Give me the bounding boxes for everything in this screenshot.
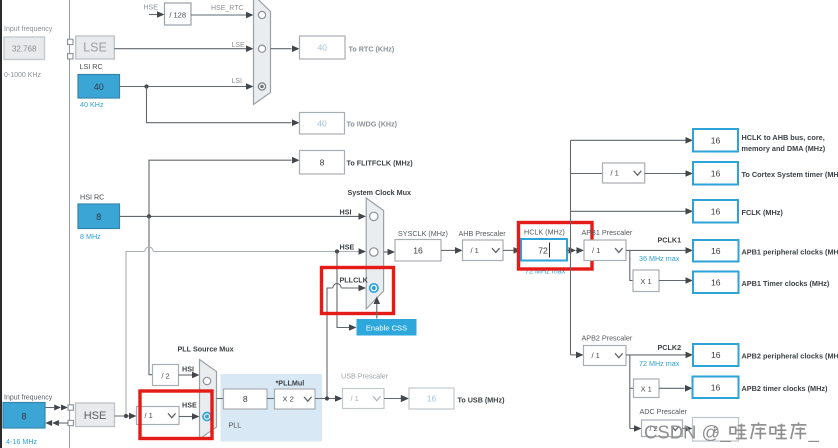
- value box SYSCLK 16: [395, 240, 441, 262]
- label APB2 timer clocks: [742, 384, 829, 393]
- svg-text:PCLK1: PCLK1: [658, 236, 682, 245]
- oscillator HSI RC 8: [78, 204, 120, 229]
- wire HSE horizontal to system mux: [153, 248, 366, 255]
- label 72 MHz max (HCLK): [525, 267, 566, 276]
- radio LSI selected: [258, 83, 265, 90]
- svg-text:0-1000 KHz: 0-1000 KHz: [4, 72, 41, 79]
- svg-text:APB2 timer clocks (MHz): APB2 timer clocks (MHz): [742, 384, 829, 393]
- svg-text:16: 16: [711, 206, 721, 216]
- svg-text:To RTC (KHz): To RTC (KHz): [349, 45, 395, 54]
- wire HSE to /128: [149, 11, 165, 18]
- port squares LSE: [68, 39, 73, 59]
- svg-text:40 KHz: 40 KHz: [80, 100, 104, 109]
- svg-text:16: 16: [711, 168, 721, 178]
- label APB2 Prescaler: [582, 334, 633, 343]
- wire PLL output: [315, 395, 343, 402]
- svg-text:/ 1: / 1: [611, 169, 619, 178]
- svg-text:X 2: X 2: [283, 395, 294, 404]
- mux RTC source: [254, 0, 271, 105]
- wire bus to FCLK box: [571, 208, 694, 215]
- label HCLK to AHB bus: [742, 133, 826, 153]
- svg-text:*PLLMul: *PLLMul: [276, 379, 305, 388]
- value box To FLITFCLK 8: [300, 151, 345, 175]
- wire LSI branch to IWDG: [147, 87, 300, 126]
- svg-text:To FLITFCLK (MHz): To FLITFCLK (MHz): [347, 159, 414, 168]
- input box 32.768: [4, 37, 45, 60]
- svg-text:16: 16: [711, 350, 721, 360]
- wire HSI to system mux: [120, 213, 367, 220]
- wire double arrows in: [45, 420, 68, 426]
- svg-text:Input frequency: Input frequency: [4, 395, 53, 402]
- svg-text:32.768: 32.768: [12, 45, 37, 54]
- label Input frequency (LSE): [4, 26, 53, 33]
- svg-text:40: 40: [317, 118, 327, 128]
- svg-text:APB1 peripheral clocks (MHz): APB1 peripheral clocks (MHz): [742, 248, 838, 257]
- label PCLK1: [658, 236, 682, 245]
- input box HSE frequency 8: [3, 403, 45, 429]
- label 8 MHz: [80, 232, 101, 241]
- port squares HSE: [68, 405, 73, 426]
- wire bus to AHB box: [571, 137, 694, 144]
- wire sysmux to SYSCLK: [384, 249, 395, 256]
- wire AHB to HCLK: [503, 247, 521, 254]
- label APB1 peripheral clocks: [742, 248, 838, 257]
- wire bus to APB2 prescaler: [571, 352, 584, 359]
- svg-text:APB2 peripheral clocks (MHz): APB2 peripheral clocks (MHz): [742, 352, 838, 361]
- wire pllmux to PLL input: [217, 398, 224, 400]
- svg-text:To IWDG (KHz): To IWDG (KHz): [347, 120, 398, 129]
- label HCLK (MHz): [524, 228, 565, 237]
- svg-text:LSI: LSI: [232, 78, 243, 85]
- button Enable CSS: [357, 319, 417, 336]
- label 0-1000 KHz: [4, 72, 41, 79]
- svg-text:Enable CSS: Enable CSS: [366, 323, 407, 332]
- label LSI (mux input): [232, 78, 243, 85]
- dropdown PLLMul X2: [275, 389, 316, 409]
- label HSE (top): [144, 5, 159, 12]
- svg-text:PCLK2: PCLK2: [658, 343, 682, 352]
- svg-text:System Clock Mux: System Clock Mux: [348, 188, 412, 197]
- prescaler /128: [165, 3, 192, 25]
- svg-text:PLL: PLL: [229, 421, 242, 430]
- wire branch to X1 APB2: [630, 387, 634, 389]
- label 4-16 MHz: [6, 437, 38, 446]
- highlight red box HCLK: [519, 223, 593, 270]
- oscillator HSE: [76, 403, 115, 427]
- svg-text:/ 1: / 1: [351, 394, 359, 403]
- value box To USB 16: [409, 388, 454, 409]
- svg-text:16: 16: [711, 382, 721, 392]
- label LSE (mux input): [232, 42, 246, 49]
- label To FLITFCLK (MHz): [347, 159, 414, 168]
- dropdown APB2 /1: [584, 346, 627, 366]
- svg-text:To USB (MHz): To USB (MHz): [458, 396, 506, 405]
- label PLLCLK: [340, 276, 369, 285]
- svg-text:/ 128: / 128: [169, 10, 186, 19]
- multiplier X1 APB2: [634, 379, 660, 398]
- radio HSE sysmux: [370, 248, 378, 256]
- svg-text:AHB Prescaler: AHB Prescaler: [459, 229, 507, 238]
- label LSI RC: [80, 62, 103, 71]
- wire /2 to pll mux: [179, 372, 200, 379]
- svg-text:8: 8: [243, 394, 248, 404]
- wire /1 to pll mux: [179, 413, 200, 420]
- radio HSI sysmux: [370, 212, 378, 220]
- wire PLLCLK to sysmux: [327, 283, 366, 398]
- svg-text:HCLK (MHz): HCLK (MHz): [524, 228, 565, 237]
- value box APB1 timer 16: [693, 272, 739, 294]
- multiplier X1 APB1: [633, 270, 659, 292]
- svg-text:PLLCLK: PLLCLK: [340, 276, 369, 285]
- label HSI RC: [80, 193, 104, 202]
- mux System Clock: [366, 198, 383, 309]
- label To USB (MHz): [458, 396, 506, 405]
- svg-text:X 1: X 1: [641, 384, 652, 393]
- svg-text:40: 40: [94, 82, 104, 92]
- wire SYSCLK to AHB prescaler: [441, 247, 463, 254]
- dropdown USB /1 disabled: [343, 389, 385, 409]
- watermark glyph ku2: [791, 422, 807, 439]
- label AHB Prescaler: [459, 229, 507, 238]
- svg-text:PLL Source Mux: PLL Source Mux: [178, 345, 234, 354]
- label APB2 peripheral clocks: [742, 352, 838, 361]
- svg-text:HSE: HSE: [340, 243, 355, 252]
- wire APB1 branch to X1: [630, 250, 633, 280]
- highlight red box PLLCLK: [322, 268, 394, 314]
- wire APB2 to peripheral box: [626, 352, 693, 359]
- value box APB2 peripheral 16: [693, 344, 739, 366]
- svg-text:ADC Prescaler: ADC Prescaler: [640, 407, 688, 416]
- value box To RTC 40: [300, 36, 346, 59]
- radio HSE_RTC: [258, 11, 265, 18]
- value box APB2 timer 16: [693, 377, 739, 399]
- radio LSE: [258, 45, 265, 52]
- wire HSE hop over HSI: [145, 247, 154, 252]
- svg-text:SYSCLK (MHz): SYSCLK (MHz): [398, 229, 448, 238]
- svg-text:16: 16: [711, 135, 721, 145]
- label PCLK2: [658, 343, 682, 352]
- wire LSE to mux: [114, 45, 253, 52]
- label ADC Prescaler: [640, 407, 688, 416]
- svg-text:APB1 Timer clocks (MHz): APB1 Timer clocks (MHz): [742, 279, 830, 288]
- watermark glyph wa2: [770, 424, 787, 439]
- label PLL: [229, 421, 242, 430]
- svg-text:/ 1: / 1: [592, 351, 600, 360]
- svg-text:FCLK (MHz): FCLK (MHz): [742, 208, 784, 217]
- value box Cortex timer 16: [693, 162, 738, 185]
- label 36 MHz max: [639, 254, 680, 263]
- radio HSE pllmux selected: [203, 413, 211, 421]
- wire HCLK to bus double arrow: [567, 247, 584, 254]
- svg-text:/ 1: / 1: [592, 246, 600, 255]
- label System Clock Mux: [348, 188, 412, 197]
- label To Cortex System timer: [742, 170, 838, 179]
- svg-text:HSE: HSE: [182, 401, 197, 410]
- label HSI (pll mux): [182, 364, 194, 373]
- svg-text:X 1: X 1: [640, 277, 651, 286]
- label USB Prescaler: [341, 372, 389, 381]
- mux PLL Source: [200, 360, 217, 440]
- label To RTC (KHz): [349, 45, 395, 54]
- panel divider line: [69, 0, 71, 448]
- wire RTC mux output: [271, 45, 300, 52]
- svg-text:memory and DMA (MHz): memory and DMA (MHz): [742, 144, 826, 153]
- dropdown AHB /1: [463, 240, 504, 261]
- svg-text:16: 16: [413, 245, 423, 255]
- svg-text:/ 1: / 1: [471, 246, 479, 255]
- svg-text:4-16 MHz: 4-16 MHz: [6, 437, 38, 446]
- dropdown ADC /2: [642, 420, 683, 437]
- watermark glyph ku1: [751, 422, 767, 439]
- svg-text:HSI: HSI: [340, 208, 352, 217]
- label PLL Source Mux: [178, 345, 234, 354]
- value box HCLK-AHB 16: [693, 129, 738, 152]
- prescaler /2 HSI: [153, 365, 179, 386]
- value box PLL input 8: [224, 389, 268, 409]
- svg-text:LSI RC: LSI RC: [80, 62, 103, 71]
- PLL shaded region: [221, 374, 323, 442]
- radio PLLCLK selected: [370, 284, 378, 292]
- svg-text:HSE: HSE: [144, 5, 159, 12]
- label APB1 Timer clocks: [742, 279, 830, 288]
- dropdown APB1 /1: [584, 240, 626, 261]
- svg-text:36 MHz max: 36 MHz max: [639, 254, 680, 263]
- wire HSE vertical: [126, 252, 145, 417]
- wire PLL input to PLLMul: [267, 398, 275, 400]
- oscillator LSE: [76, 36, 115, 59]
- svg-text:8: 8: [96, 212, 101, 222]
- oscillator LSI RC 40: [78, 75, 120, 99]
- wire APB2 branch vertical: [629, 355, 631, 429]
- watermark glyph wa1: [730, 424, 747, 439]
- label Input frequency (HSE): [4, 395, 53, 402]
- value box APB1 peripheral 16: [693, 240, 739, 262]
- value box To ADC: [693, 418, 739, 442]
- svg-text:8 MHz: 8 MHz: [80, 232, 101, 241]
- wire HSI branch to FLITFCLK: [149, 157, 300, 217]
- wire HSI vertical to PLL /2: [149, 216, 153, 374]
- svg-text:16: 16: [427, 394, 437, 404]
- svg-text:To Cortex System timer (MHz): To Cortex System timer (MHz): [742, 170, 838, 179]
- wire bus to cortex prescaler: [571, 173, 603, 175]
- left panel dark border: [0, 0, 2, 448]
- svg-text:72: 72: [538, 246, 548, 256]
- value box To IWDG 40: [300, 113, 345, 135]
- wire HCLK bus vertical: [570, 140, 572, 355]
- label HSE_RTC: [211, 5, 244, 12]
- svg-text:16: 16: [711, 246, 721, 256]
- svg-text:HCLK to AHB bus, core,: HCLK to AHB bus, core,: [742, 133, 825, 142]
- watermark CSDN: [644, 422, 731, 444]
- radio HSI pllmux: [203, 377, 210, 384]
- label *PLLMul: [276, 379, 305, 388]
- input box HCLK 72: [521, 239, 567, 261]
- label HSE (pll mux): [182, 401, 197, 410]
- dropdown Cortex /1: [603, 163, 645, 183]
- label HSI (sysmux): [340, 208, 352, 217]
- svg-text:8: 8: [21, 411, 26, 421]
- svg-text:CSDN @_: CSDN @_: [644, 422, 731, 444]
- wire ADC prescaler to box: [683, 425, 693, 432]
- label HSE (sysmux): [340, 243, 355, 252]
- wire X1 to timer box: [659, 277, 693, 284]
- label FCLK (MHz): [742, 208, 784, 217]
- svg-text:/ 2: / 2: [161, 371, 169, 380]
- watermark underscore: [808, 422, 820, 444]
- svg-text:_: _: [808, 422, 820, 444]
- label SYSCLK (MHz): [398, 229, 448, 238]
- label To IWDG (KHz): [347, 120, 398, 129]
- svg-text:APB1 Prescaler: APB1 Prescaler: [582, 228, 633, 237]
- label 40 KHz: [80, 100, 104, 109]
- svg-text:16: 16: [711, 277, 721, 287]
- wire APB1 to peripheral box: [626, 247, 693, 254]
- svg-text:8: 8: [320, 157, 325, 167]
- svg-text:HSE: HSE: [84, 410, 107, 422]
- wire cortex prescaler to box: [645, 170, 693, 177]
- svg-text:USB Prescaler: USB Prescaler: [341, 372, 389, 381]
- svg-text:HSE_RTC: HSE_RTC: [211, 5, 244, 12]
- wire /128 to RTC mux: [191, 12, 254, 19]
- label 72 MHz max (PCLK2): [639, 359, 680, 368]
- wire branch to ADC prescaler: [630, 425, 642, 432]
- wire USB prescaler to box: [384, 395, 409, 402]
- highlight red box PLL HSE: [140, 391, 212, 439]
- svg-text:Input frequency: Input frequency: [4, 26, 53, 33]
- wire CSS branch: [337, 252, 357, 331]
- wire CSS up arrow: [374, 297, 381, 319]
- wire HSE box to /1: [115, 413, 137, 420]
- svg-text:LSE: LSE: [83, 41, 107, 55]
- svg-text:APB2 Prescaler: APB2 Prescaler: [582, 334, 633, 343]
- dropdown HSE divider /1: [137, 407, 180, 425]
- svg-text:HSI RC: HSI RC: [80, 193, 104, 202]
- label APB1 Prescaler: [582, 228, 633, 237]
- svg-text:/ 1: / 1: [145, 411, 153, 420]
- svg-text:LSE: LSE: [232, 42, 246, 49]
- wire LSI to mux: [120, 83, 254, 90]
- wire X1 to APB2 timer box: [659, 385, 693, 392]
- value box FCLK 16: [693, 200, 738, 223]
- svg-text:40: 40: [317, 43, 327, 53]
- wire double arrows out: [45, 405, 68, 411]
- svg-text:72 MHz max: 72 MHz max: [639, 359, 680, 368]
